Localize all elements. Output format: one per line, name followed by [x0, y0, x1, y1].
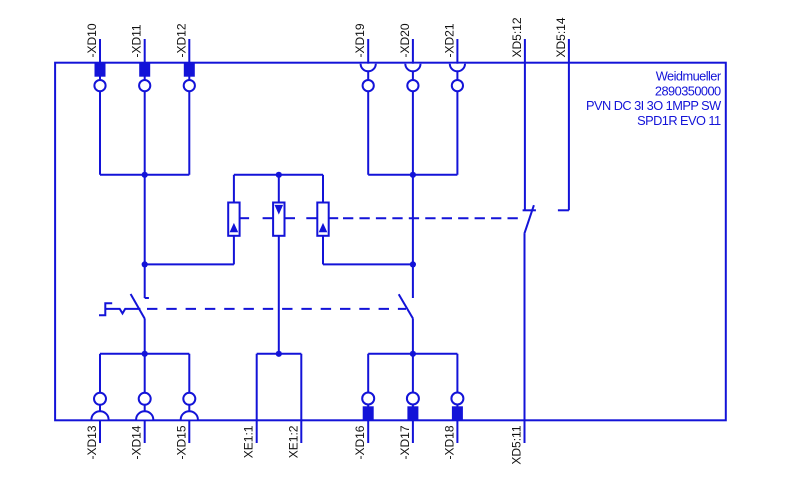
svg-text:XE1:1: XE1:1: [242, 425, 256, 458]
svg-text:-XD20: -XD20: [398, 23, 412, 57]
svg-text:XE1:2: XE1:2: [286, 425, 300, 458]
svg-text:XD5:11: XD5:11: [510, 425, 524, 464]
svg-text:2890350000: 2890350000: [655, 83, 721, 98]
svg-text:-XD12: -XD12: [174, 23, 188, 57]
svg-text:PVN DC 3I 3O 1MPP SW: PVN DC 3I 3O 1MPP SW: [586, 98, 722, 113]
svg-text:XD5:14: XD5:14: [554, 17, 568, 57]
svg-text:-XD15: -XD15: [174, 425, 188, 459]
svg-text:-XD18: -XD18: [442, 425, 456, 459]
svg-text:Weidmueller: Weidmueller: [656, 69, 722, 84]
svg-text:-XD17: -XD17: [398, 425, 412, 459]
svg-text:XD5:12: XD5:12: [510, 17, 524, 57]
svg-text:-XD11: -XD11: [130, 24, 144, 57]
svg-text:-XD13: -XD13: [85, 425, 99, 459]
svg-text:-XD10: -XD10: [85, 23, 99, 57]
svg-text:-XD14: -XD14: [130, 425, 144, 459]
svg-text:-XD19: -XD19: [353, 23, 367, 57]
svg-text:-XD16: -XD16: [353, 425, 367, 459]
svg-text:-XD21: -XD21: [442, 23, 456, 57]
svg-text:SPD1R EVO 11: SPD1R EVO 11: [637, 113, 721, 128]
